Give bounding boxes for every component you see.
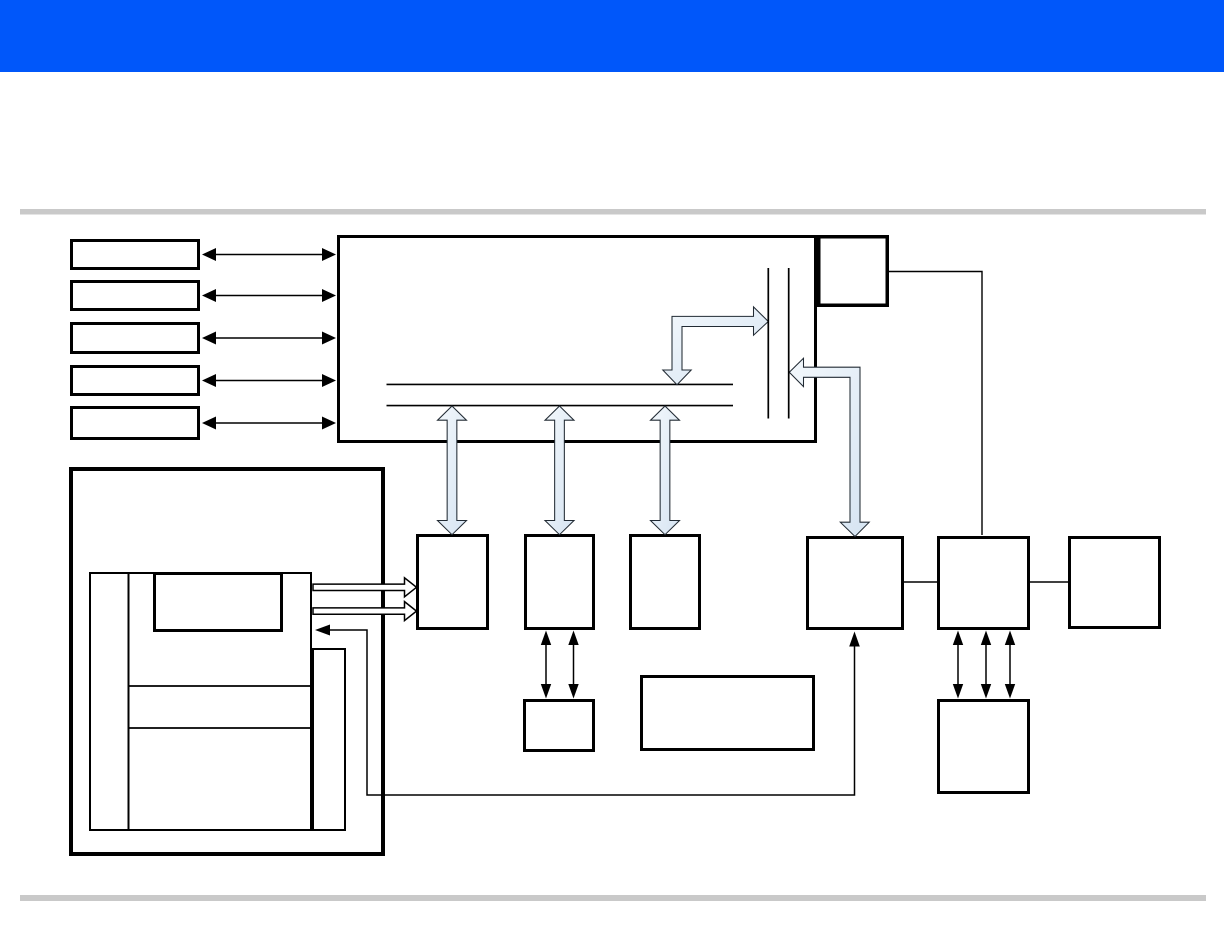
wire D-E xyxy=(904,581,937,583)
block E xyxy=(939,538,1029,629)
arrow pair B-subblock 2 xyxy=(568,631,578,699)
internal vertical line 1 xyxy=(767,268,769,419)
block D xyxy=(808,538,903,629)
side column rect xyxy=(313,649,345,830)
block B xyxy=(526,536,594,629)
bidirectional arrow P4-core xyxy=(202,374,336,387)
arrow pair B-subblock 1 xyxy=(541,631,551,699)
bidirectional arrow P5-core xyxy=(202,417,336,430)
block arrow bus-C xyxy=(651,406,680,535)
block C xyxy=(631,536,700,629)
peripheral box P4 xyxy=(72,367,199,395)
arrow E-G 3 xyxy=(1005,631,1015,699)
row line 2 xyxy=(129,727,312,729)
block arrow bus-B xyxy=(545,406,574,535)
block G xyxy=(939,701,1029,793)
memory outer box xyxy=(71,469,383,854)
memory inner array rect xyxy=(90,573,311,830)
elbow block arrow line2 to D xyxy=(789,358,869,536)
block arrow bus-A xyxy=(438,406,467,535)
peripheral box P5 xyxy=(72,408,199,439)
bidirectional arrow P1-core xyxy=(202,248,336,261)
blue header bar xyxy=(0,0,1224,72)
bus line upper xyxy=(387,383,734,385)
top sub-block rect xyxy=(155,574,282,631)
column divider line xyxy=(128,572,130,830)
internal vertical line 2 xyxy=(788,268,790,419)
gray rule bottom xyxy=(20,895,1206,901)
arrow E-G 1 xyxy=(953,631,963,699)
bidirectional arrow P3-core xyxy=(202,332,336,345)
peripheral box P2 xyxy=(72,282,199,310)
peripheral box P1 xyxy=(72,241,199,269)
CPU core box xyxy=(339,237,816,442)
wire interface box to box E xyxy=(887,272,982,536)
interface sub-box top right xyxy=(819,237,888,306)
bidirectional arrow P2-core xyxy=(202,289,336,302)
long wire memory to block D xyxy=(315,625,860,796)
arrow E-G 2 xyxy=(981,631,991,699)
block A xyxy=(418,536,488,629)
open arrow memory to A upper xyxy=(313,578,417,597)
gray rule top xyxy=(20,209,1206,215)
open arrow memory to A lower xyxy=(313,602,417,621)
wire E-F xyxy=(1030,581,1068,583)
wide box xyxy=(642,677,814,750)
sub box below B xyxy=(525,701,594,751)
row line 1 xyxy=(129,685,312,687)
block F xyxy=(1070,538,1160,628)
elbow block arrow bus to line1 xyxy=(663,307,769,385)
bus line lower xyxy=(387,405,734,407)
peripheral box P3 xyxy=(72,324,199,353)
